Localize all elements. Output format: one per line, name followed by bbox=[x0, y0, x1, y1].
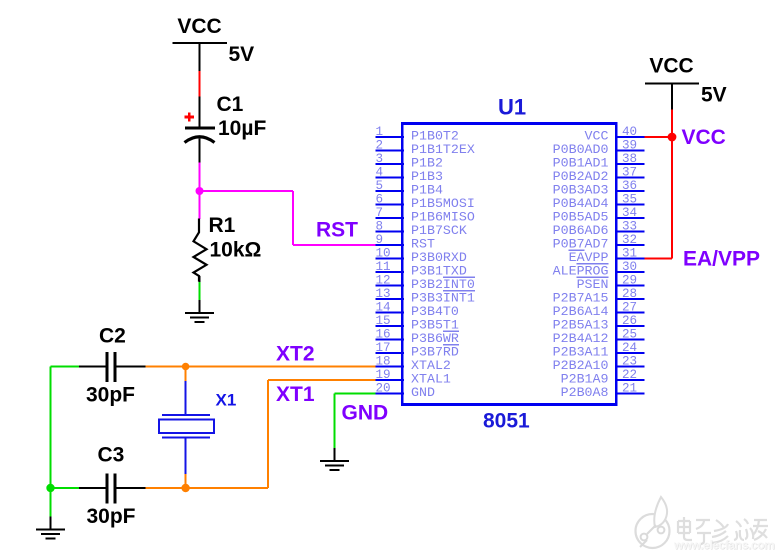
junction node XT1 bbox=[181, 484, 189, 492]
svg-text:www.elecfans.com: www.elecfans.com bbox=[673, 538, 775, 552]
wire orange C3 to crystal node bbox=[146, 487, 186, 489]
C1 top plate bbox=[185, 126, 215, 129]
wire orange crystal bottom bbox=[185, 474, 187, 488]
pin 23 P2B2A10 bbox=[553, 354, 645, 373]
pin 1 P1B0T2 bbox=[376, 125, 459, 144]
wire green C2/C3 vertical bbox=[50, 367, 52, 489]
capacitor C3 bbox=[107, 474, 115, 504]
svg-text:U1: U1 bbox=[498, 95, 526, 120]
wire black to C3 plate bbox=[79, 487, 106, 489]
svg-text:GND: GND bbox=[411, 385, 435, 400]
svg-text:38: 38 bbox=[622, 152, 637, 166]
pin 6 P1B5MOSI bbox=[376, 192, 475, 211]
pin 12 P3B2INT0 bbox=[376, 273, 475, 292]
pin 9 RST bbox=[376, 233, 435, 252]
svg-text:8: 8 bbox=[376, 219, 384, 233]
ground symbol below R1 bbox=[185, 313, 214, 322]
svg-text:18: 18 bbox=[376, 354, 391, 368]
wire red to pin 31 EA/VPP bbox=[645, 258, 673, 260]
pin 22 P2B1A9 bbox=[561, 368, 645, 387]
svg-text:30pF: 30pF bbox=[87, 505, 136, 528]
pin 3 P1B2 bbox=[376, 152, 443, 171]
svg-text:20: 20 bbox=[376, 381, 391, 395]
svg-text:37: 37 bbox=[622, 165, 637, 179]
wire orange bend up bbox=[267, 380, 269, 488]
wire green segment R1 to ground bbox=[199, 282, 201, 300]
svg-text:XT2: XT2 bbox=[276, 343, 315, 366]
pin 29 PSEN bbox=[577, 273, 645, 292]
svg-text:RST: RST bbox=[316, 219, 358, 242]
svg-text:40: 40 bbox=[622, 125, 637, 139]
pin 30 ALEPROG bbox=[553, 260, 645, 279]
svg-text:24: 24 bbox=[622, 341, 637, 355]
junction node RST net bbox=[196, 187, 204, 195]
svg-text:2: 2 bbox=[376, 138, 384, 152]
svg-text:C3: C3 bbox=[98, 444, 125, 467]
svg-text:15: 15 bbox=[376, 314, 391, 328]
svg-text:28: 28 bbox=[622, 287, 637, 301]
svg-text:XT1: XT1 bbox=[276, 383, 315, 406]
crystal X1 bbox=[159, 381, 214, 474]
pin 25 P2B4A12 bbox=[553, 327, 645, 346]
pin 20 GND bbox=[376, 381, 435, 400]
wire black stub to ground (bottom-left) bbox=[50, 517, 52, 530]
capacitor C1 polarized bbox=[185, 112, 216, 142]
wire green below left node bbox=[50, 488, 52, 517]
wire orange node down to crystal bbox=[185, 367, 187, 381]
pin 18 XTAL2 bbox=[376, 354, 451, 373]
svg-text:8051: 8051 bbox=[483, 410, 530, 433]
svg-text:3: 3 bbox=[376, 152, 384, 166]
svg-text:9: 9 bbox=[376, 233, 384, 247]
wire magenta bend down bbox=[292, 191, 294, 245]
pin 32 P0B7AD7 bbox=[553, 233, 645, 252]
wire magenta node to R1 bbox=[199, 191, 201, 219]
pin 24 P2B3A11 bbox=[553, 341, 645, 360]
svg-text:31: 31 bbox=[622, 246, 637, 260]
watermark url text bbox=[673, 538, 775, 553]
svg-text:35: 35 bbox=[622, 192, 637, 206]
svg-text:6: 6 bbox=[376, 192, 384, 206]
wire red to pin 40 bbox=[645, 136, 673, 138]
wire orange C2 to crystal node bbox=[146, 366, 186, 368]
wire black stub to ground (GND net) bbox=[334, 448, 336, 461]
pin 28 P2B7A15 bbox=[553, 287, 645, 306]
svg-text:VCC: VCC bbox=[177, 15, 221, 38]
pin 8 P1B7SCK bbox=[376, 219, 467, 238]
junction node VCC pin 40 bbox=[668, 133, 677, 142]
wire black VCC stem (right) bbox=[671, 84, 673, 110]
pin 16 P3B6WR bbox=[376, 327, 459, 346]
pin 2 P1B1T2EX bbox=[376, 138, 475, 157]
svg-text:X1: X1 bbox=[216, 391, 237, 410]
wire magenta node to bend bbox=[200, 190, 294, 192]
pin 14 P3B4T0 bbox=[376, 300, 459, 319]
resistor R1 bbox=[194, 219, 207, 282]
svg-text:EA/VPP: EA/VPP bbox=[683, 248, 760, 271]
svg-text:10: 10 bbox=[376, 246, 391, 260]
wire magenta C1 to node bbox=[199, 163, 201, 192]
svg-text:5: 5 bbox=[376, 179, 384, 193]
wire black below R1 bbox=[199, 276, 201, 282]
svg-text:5V: 5V bbox=[229, 43, 255, 66]
wire magenta to pin 9 RST bbox=[293, 244, 376, 246]
svg-text:30: 30 bbox=[622, 260, 637, 274]
wire black stub to ground bbox=[199, 300, 201, 313]
wire black from C2 right plate bbox=[117, 366, 146, 368]
pin 10 P3B0RXD bbox=[376, 246, 467, 265]
svg-text:4: 4 bbox=[376, 165, 384, 179]
svg-text:32: 32 bbox=[622, 233, 637, 247]
svg-text:27: 27 bbox=[622, 300, 637, 314]
svg-text:13: 13 bbox=[376, 287, 391, 301]
pin 7 P1B6MISO bbox=[376, 206, 475, 225]
svg-text:10kΩ: 10kΩ bbox=[210, 239, 262, 262]
wire green GND down bbox=[334, 394, 336, 449]
svg-text:14: 14 bbox=[376, 300, 391, 314]
pin 17 P3B7RD bbox=[376, 341, 459, 360]
power symbol VCC (top-right) bbox=[645, 55, 699, 84]
wire black to C2 plate bbox=[79, 366, 106, 368]
pin 34 P0B5AD5 bbox=[553, 206, 645, 225]
watermark chinese strokes bbox=[678, 517, 768, 544]
svg-text:16: 16 bbox=[376, 327, 391, 341]
watermark logo elecfans bbox=[636, 497, 670, 548]
wire green C2 left bbox=[51, 366, 80, 368]
svg-text:25: 25 bbox=[622, 327, 637, 341]
wire orange to pin 19 bbox=[268, 379, 376, 381]
junction node ground (left) bbox=[46, 484, 54, 492]
svg-text:30pF: 30pF bbox=[86, 384, 135, 407]
pin 21 P2B0A8 bbox=[561, 381, 645, 400]
svg-text:C1: C1 bbox=[217, 93, 244, 116]
wire orange XT2 node to pin 18 bbox=[186, 366, 376, 368]
pin 35 P0B4AD4 bbox=[553, 192, 645, 211]
wire orange XT1 node to bend bbox=[186, 487, 268, 489]
svg-text:11: 11 bbox=[376, 260, 391, 274]
power symbol VCC (top-left) bbox=[173, 15, 228, 43]
pin 33 P0B6AD6 bbox=[553, 219, 645, 238]
wire green C3 left bbox=[51, 487, 80, 489]
svg-text:22: 22 bbox=[622, 368, 637, 382]
svg-text:C2: C2 bbox=[99, 325, 126, 348]
svg-text:36: 36 bbox=[622, 179, 637, 193]
pin 26 P2B5A13 bbox=[553, 314, 645, 333]
pin 39 P0B0AD0 bbox=[553, 138, 645, 157]
junction node XT2 bbox=[182, 363, 190, 371]
wire red VCC down bbox=[671, 110, 673, 259]
svg-text:5V: 5V bbox=[701, 84, 727, 107]
svg-text:33: 33 bbox=[622, 219, 637, 233]
svg-text:10µF: 10µF bbox=[218, 117, 266, 140]
svg-text:34: 34 bbox=[622, 206, 637, 220]
C1 bottom curved plate bbox=[185, 137, 215, 143]
capacitor C2 bbox=[107, 352, 115, 382]
ground symbol GND net bbox=[320, 461, 349, 470]
pin 38 P0B1AD1 bbox=[553, 152, 645, 171]
svg-text:39: 39 bbox=[622, 138, 637, 152]
svg-text:VCC: VCC bbox=[682, 126, 726, 149]
pin 15 P3B5T1 bbox=[376, 314, 459, 333]
svg-text:26: 26 bbox=[622, 314, 637, 328]
svg-text:P2B0A8: P2B0A8 bbox=[561, 385, 609, 400]
IC U1 8051 body bbox=[402, 124, 616, 405]
wire black from C3 right plate bbox=[117, 487, 146, 489]
plus sign of C1 bbox=[185, 116, 195, 119]
ground symbol bottom-left bbox=[36, 530, 65, 539]
pin 11 P3B1TXD bbox=[376, 260, 467, 279]
svg-text:17: 17 bbox=[376, 341, 391, 355]
svg-text:7: 7 bbox=[376, 206, 384, 220]
wire black to C1 top plate bbox=[199, 97, 201, 128]
pin 31 EAVPP bbox=[569, 246, 645, 265]
pin 36 P0B3AD3 bbox=[553, 179, 645, 198]
pin 5 P1B4 bbox=[376, 179, 443, 198]
svg-text:VCC: VCC bbox=[649, 55, 693, 78]
svg-text:21: 21 bbox=[622, 381, 637, 395]
svg-text:29: 29 bbox=[622, 273, 637, 287]
pin 13 P3B3INT1 bbox=[376, 287, 475, 306]
svg-text:R1: R1 bbox=[209, 214, 236, 237]
wire VCC stem black bbox=[199, 43, 201, 71]
pin 4 P1B3 bbox=[376, 165, 443, 184]
pin 40 VCC bbox=[585, 125, 645, 144]
pin 19 XTAL1 bbox=[376, 368, 451, 387]
pin 27 P2B6A14 bbox=[553, 300, 645, 319]
wire black below C1 bbox=[199, 139, 201, 163]
svg-text:GND: GND bbox=[342, 402, 389, 425]
wire red segment VCC to C1 bbox=[199, 71, 201, 97]
wire green pin 20 GND bbox=[335, 393, 376, 395]
svg-text:23: 23 bbox=[622, 354, 637, 368]
svg-text:12: 12 bbox=[376, 273, 391, 287]
pin 37 P0B2AD2 bbox=[553, 165, 645, 184]
svg-text:19: 19 bbox=[376, 368, 391, 382]
svg-text:1: 1 bbox=[376, 125, 384, 139]
